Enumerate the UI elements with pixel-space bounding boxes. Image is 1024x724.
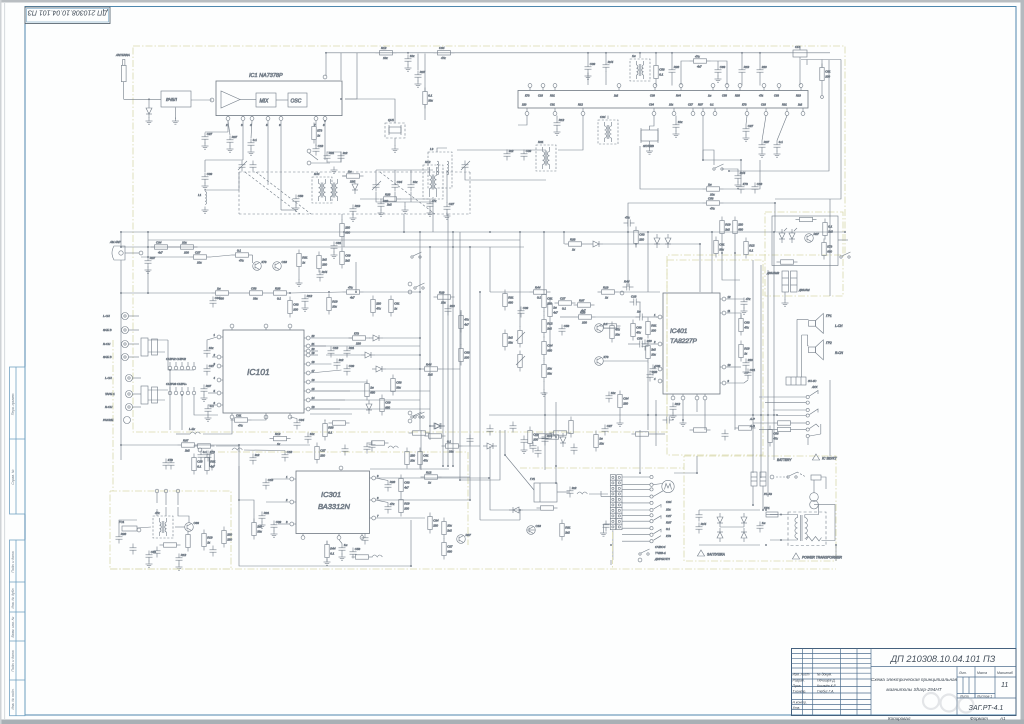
stub [696,394,698,396]
wire [310,354,318,356]
svg-text:ДП 210308.10.04.101 ПЗ: ДП 210308.10.04.101 ПЗ [27,8,108,15]
svg-text:R12: R12 [426,470,432,474]
pin stub [786,108,788,111]
capacitor [328,346,339,357]
resistor R116 [421,362,442,376]
svg-text:220: 220 [737,223,743,227]
wire [696,400,698,412]
contact lever [654,529,662,534]
stub [304,350,306,352]
svg-text:ANTENNA: ANTENNA [115,53,130,57]
ground [202,207,209,214]
pin stub [739,88,741,91]
dashed link [776,476,788,478]
wire [777,415,806,417]
svg-text:10к: 10к [197,260,202,264]
pin [139,251,143,255]
resistor [714,237,725,258]
wire [647,316,658,318]
capacitor [362,534,369,545]
pin [137,528,141,532]
pin number [312,351,315,355]
resistor [270,286,291,300]
pin IC2 bottom [785,112,789,116]
wire [653,433,666,435]
terminal strip X1 [610,475,622,530]
pin stub [763,88,765,91]
pin IC1 [226,117,230,121]
resistor [329,421,350,425]
ceramic resonator [793,45,807,57]
pot arrow [516,332,525,341]
svg-text:220: 220 [546,301,552,305]
svg-text:Подп. и дата: Подп. и дата [11,650,15,671]
wire [208,404,217,406]
ground [350,215,357,222]
svg-text:TAPE 1: TAPE 1 [105,392,115,396]
capacitor [535,447,542,458]
pin [638,558,642,562]
pin label [742,103,747,107]
pin [307,149,311,153]
svg-text:C34: C34 [666,500,672,504]
gang dashed box top [239,213,448,215]
wire [310,370,341,373]
wire [480,519,520,521]
wire [244,449,285,452]
svg-text:680: 680 [508,300,513,304]
svg-text:С27: С27 [449,202,455,206]
pin number [214,376,216,380]
wire [204,160,206,172]
contact pin [650,475,653,478]
wire [239,445,254,523]
wire [400,198,430,200]
wire [622,534,650,536]
svg-text:К73: К73 [827,245,832,249]
coil L201 [189,427,200,434]
resistor [631,320,642,341]
wire [376,478,388,481]
svg-text:MIX: MIX [260,99,270,105]
wire [838,239,848,241]
svg-text:2к2: 2к2 [321,258,327,262]
label [655,545,666,549]
svg-text:220: 220 [321,262,327,266]
wire [310,390,430,392]
resistor [297,250,308,271]
pin label [735,94,740,98]
wire [523,509,540,511]
svg-text:1м: 1м [553,306,557,310]
pin IC101 right [306,353,310,357]
svg-text:C34: C34 [439,46,445,50]
svg-text:4к7: 4к7 [581,308,586,312]
wire [603,524,605,530]
resistor [542,291,553,312]
svg-text:IC101: IC101 [247,367,270,377]
wire [519,232,521,327]
ground [741,308,748,315]
wire [711,232,713,293]
pin header CN102 [166,382,196,395]
svg-text:0.1: 0.1 [428,94,432,98]
wire [647,343,658,345]
svg-text:100: 100 [651,328,656,332]
svg-text:R12: R12 [578,103,583,107]
svg-text:C34: C34 [299,418,305,422]
wire [175,526,185,528]
svg-text:С18: С18 [318,144,324,148]
external antenna jack [109,240,125,260]
pin number [214,389,216,393]
svg-text:С81: С81 [336,241,342,245]
capacitor [198,450,208,461]
wire [821,60,823,68]
svg-text:100: 100 [582,320,587,324]
pin IC101 right [306,336,310,340]
svg-text:С27: С27 [748,124,754,128]
wire jack up [120,232,122,247]
IC101 outline [223,330,304,413]
svg-text:Косачёв К.Р: Косачёв К.Р [817,684,837,688]
diode [430,423,444,429]
pin number [314,123,316,127]
power transformer T401 [788,512,826,546]
wire [410,192,412,202]
svg-text:1м: 1м [599,437,603,441]
svg-text:100: 100 [293,307,298,311]
capacitor [630,295,641,306]
IC301 section box wire [239,466,411,566]
ground [331,252,338,259]
pin IC2 bottom [745,112,749,116]
wire [119,520,137,533]
pin label [698,103,703,107]
capacitor C12 [248,138,258,149]
wire [636,243,700,245]
resistor [325,541,336,562]
svg-text:R19: R19 [796,94,801,98]
wire [639,53,641,58]
LED [789,229,795,243]
svg-text:C34: C34 [397,180,403,184]
svg-text:С81: С81 [547,297,553,301]
svg-text:SAE B: SAE B [103,328,112,332]
left margin column boxes group 1 [10,367,26,514]
capacitor [168,459,175,470]
capacitor [715,65,726,76]
svg-text:С63: С63 [636,326,642,330]
svg-text:С56: С56 [564,324,570,328]
wire [704,400,706,430]
wire [370,468,449,470]
svg-text:220: 220 [646,339,652,343]
right loop wire lower [775,60,841,200]
resistor [690,428,711,432]
svg-text:1м: 1м [370,386,374,390]
svg-text:L1: L1 [198,193,202,197]
resistor [160,543,181,547]
capacitor [385,502,396,513]
wire [452,232,454,247]
svg-text:С18: С18 [631,295,637,299]
wire [375,354,420,356]
bus wire [447,390,449,466]
svg-text:R19: R19 [744,347,750,351]
wire [267,121,269,185]
svg-text:С56: С56 [355,547,361,551]
svg-text:С56: С56 [773,432,779,436]
ground [617,420,624,427]
pin IC2 top [762,84,766,88]
svg-text:47к: 47к [376,306,381,310]
ground [202,143,209,150]
stub [661,368,664,370]
svg-text:С63: С63 [383,199,389,203]
top supply rail [326,52,830,54]
svg-text:2к2: 2к2 [344,258,350,262]
stub [221,379,223,381]
svg-text:0.1: 0.1 [710,103,714,107]
svg-text:21: 21 [311,342,315,346]
pin number [214,362,216,366]
pin stub [542,88,544,91]
wire [647,232,649,292]
svg-text:680: 680 [345,230,350,234]
pin IC2 bottom [581,112,585,116]
svg-text:R-CH: R-CH [105,405,113,409]
ground [205,415,212,422]
stub [304,337,306,339]
pin IC401 left [658,379,662,383]
diode D101 [369,335,383,341]
wire [364,291,421,293]
wire [821,85,823,96]
svg-text:1м: 1м [217,286,221,290]
input jack [103,341,139,348]
pin stub [802,108,804,111]
input jack [105,375,141,382]
wire [345,53,357,99]
svg-text:4к7: 4к7 [464,322,469,326]
svg-text:4к7: 4к7 [350,295,355,299]
pin number [728,379,730,383]
ground [600,530,607,537]
wire [699,244,701,292]
wire [622,502,650,504]
svg-text:Схема электрическая принципиал: Схема электрическая принципиальная [871,677,958,682]
svg-text:R28: R28 [674,65,680,69]
wire [298,271,300,281]
capacitor [294,418,305,429]
capacitor C11 [227,135,238,146]
pin number [213,353,216,357]
svg-text:С27: С27 [560,296,566,300]
ground [392,146,399,153]
resistor R104 [365,380,376,401]
bias oscillator transformer T301 [153,511,173,538]
LED [779,229,785,243]
wire [587,53,589,63]
pin IC101 left [217,335,221,339]
svg-text:R07: R07 [183,438,189,442]
svg-text:К73: К73 [317,129,322,133]
svg-text:R07: R07 [666,521,672,525]
svg-text:4к7: 4к7 [553,310,558,314]
capacitor [313,144,324,155]
svg-text:R44: R44 [701,522,707,526]
pin IC301 left [290,477,294,481]
capacitor [722,430,729,441]
pin stub [653,108,655,111]
mains plug [764,480,818,509]
wire [796,319,798,377]
svg-text:47к: 47к [432,199,437,203]
svg-text:А-Р: А-Р [749,417,755,421]
svg-text:1м: 1м [344,543,348,547]
wire [650,116,655,130]
resistor [822,239,833,260]
bottom-left board outline [110,491,231,569]
svg-text:С18: С18 [282,260,288,264]
wire motor b [653,491,663,497]
capacitor [210,296,221,307]
pin label [550,94,555,98]
capacitor [204,346,215,357]
pin number [653,340,656,344]
wire [404,202,406,207]
pin label [578,103,583,107]
pin stub [800,88,802,91]
pin IC101 right [306,371,310,375]
wire [724,160,761,189]
motor M1 [662,480,674,492]
svg-text:33к: 33к [257,529,262,533]
wire [271,478,290,480]
wire [556,116,558,119]
ground [201,395,208,402]
resistor [425,434,446,438]
ground [782,300,789,307]
capacitor [204,364,215,375]
pin label [797,103,803,107]
resistor [600,324,621,328]
IC401 outline [663,293,720,394]
capacitor [385,480,396,491]
wire to IC1 input [191,99,212,101]
pin IC401 bottom [671,396,675,400]
svg-text:Формат: Формат [970,716,988,721]
stub [265,328,267,330]
capacitor [647,370,658,381]
svg-text:С27: С27 [195,250,201,254]
contact pin [650,483,653,486]
long wire [489,414,777,416]
ground [646,148,653,155]
stub [704,394,706,396]
coil L202 [232,448,242,450]
ground [743,135,750,142]
wire [442,368,461,370]
wire [717,61,719,66]
wire [649,141,651,148]
warning power transformer [792,553,842,560]
resistor [594,431,605,452]
wire [622,540,650,542]
input jack [105,404,141,411]
wire [505,430,534,490]
svg-text:2к2: 2к2 [184,448,190,452]
wire [681,61,690,85]
svg-text:Лит.: Лит. [958,671,967,675]
sheet left edge [4,3,6,719]
wire [341,240,343,247]
resistor [192,454,203,475]
stub [370,499,372,501]
pin number [312,405,315,409]
resistor [212,286,233,300]
group cell [969,705,1004,712]
wire [424,54,426,92]
svg-text:2к2: 2к2 [338,358,344,362]
capacitor [757,65,768,76]
capacitor [670,402,681,413]
bus vertical [452,247,454,390]
svg-text:ГС1: ГС1 [119,520,125,524]
op-amp IC1 outline [216,81,342,116]
svg-text:С56: С56 [659,68,665,72]
pin IC101 right [306,362,310,366]
board outline left leg [112,340,114,491]
stub [304,390,306,392]
svg-text:С56: С56 [637,337,643,341]
wire [233,292,246,294]
svg-text:C34: C34 [547,344,553,348]
top-left stamp box (rotated doc number) [25,7,110,24]
svg-text:10к: 10к [441,300,446,304]
label [835,351,844,355]
pin stub [702,108,704,111]
svg-text:ЗЧ-4С: ЗЧ-4С [808,379,817,383]
pin number [377,514,379,518]
svg-text:2к2: 2к2 [613,94,619,98]
gang dashed line [448,213,470,215]
resistor R10 [434,46,455,60]
pin number [311,342,315,346]
svg-text:0.1: 0.1 [277,296,281,300]
resistor [528,427,539,448]
svg-text:ГУ1: ГУ1 [530,477,535,481]
resistor [610,322,621,343]
rectifier diode [717,513,723,527]
svg-text:Глебус Г.А.: Глебус Г.А. [817,690,834,694]
capacitor [624,216,635,227]
wire [394,115,396,123]
transistor Q401 [595,322,608,332]
jack bar [810,424,821,436]
capacitor [408,180,419,191]
coil shield box [428,152,452,188]
pin label [774,94,779,98]
indicator board inner box [772,216,838,266]
pin [210,98,214,102]
ceramic filter CF2 [641,128,658,148]
capacitor [487,425,494,436]
pin IC101 right [306,380,310,384]
svg-text:А1: А1 [999,716,1006,721]
resistor [739,341,750,362]
